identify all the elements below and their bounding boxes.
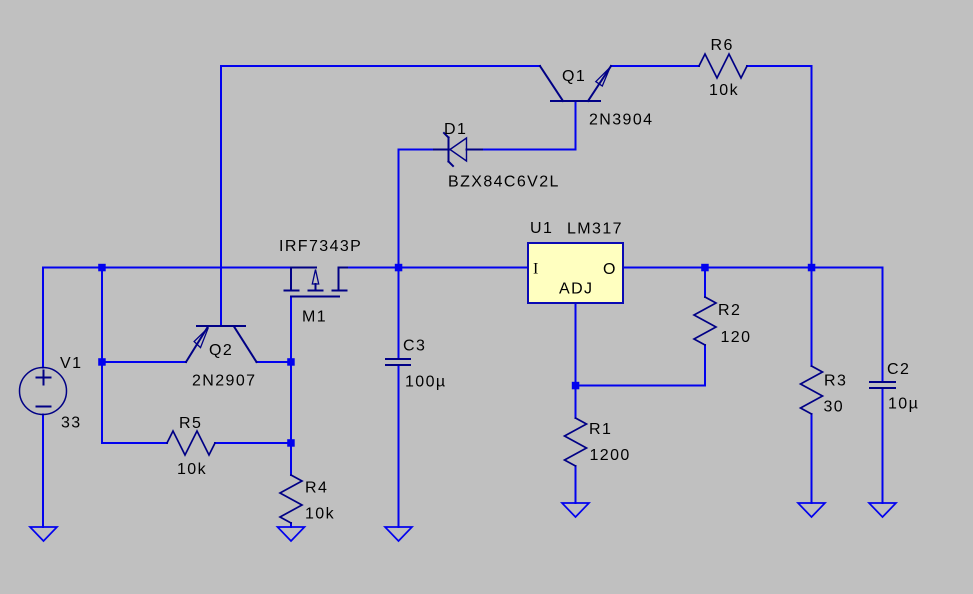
svg-text:2N3904: 2N3904 [589, 112, 653, 129]
ground under R3 [798, 503, 825, 517]
node junction on rail at x=705 [701, 264, 709, 272]
svg-text:O: O [603, 261, 617, 278]
node junction on rail at x=399 [395, 264, 403, 272]
svg-text:10k: 10k [305, 506, 335, 523]
svg-text:U1: U1 [530, 220, 553, 237]
svg-text:R6: R6 [711, 37, 734, 54]
resistor R4 [280, 475, 302, 523]
ground under R4 [278, 527, 305, 541]
wire [399, 150, 450, 360]
svg-text:LM317: LM317 [567, 221, 623, 238]
ground under V1 [30, 527, 57, 541]
wire [575, 466, 577, 503]
ground under C3 [385, 527, 412, 541]
wire [221, 66, 540, 326]
wire [704, 268, 706, 298]
wire [42, 415, 44, 528]
node junction on rail at x=102 [98, 264, 106, 272]
resistor R2 [694, 297, 716, 345]
wire [215, 442, 291, 444]
wire [467, 101, 576, 150]
wire [290, 523, 292, 527]
svg-text:C3: C3 [403, 338, 426, 355]
svg-text:D1: D1 [444, 121, 467, 138]
svg-text:C2: C2 [887, 361, 910, 378]
wire [102, 361, 186, 363]
node junction on rail at x=811 [808, 264, 816, 272]
svg-text:10k: 10k [709, 82, 739, 99]
wire [346, 267, 528, 269]
ground under R1 [562, 503, 589, 517]
wire [102, 268, 167, 444]
node junction Q2 emitter row [98, 358, 106, 366]
wire [576, 345, 706, 386]
voltage source V1 [20, 368, 67, 415]
svg-text:V1: V1 [60, 355, 82, 372]
svg-text:Q1: Q1 [562, 68, 586, 85]
svg-text:IRF7343P: IRF7343P [279, 238, 362, 255]
wire [398, 365, 400, 527]
transistor Q1 [540, 66, 611, 101]
svg-text:1200: 1200 [590, 447, 631, 464]
wire [575, 303, 577, 418]
svg-text:R4: R4 [305, 480, 328, 497]
wire [623, 268, 883, 383]
wire [882, 388, 884, 503]
wire [611, 65, 699, 67]
node junction Q2 collector row [287, 358, 295, 366]
resistor R1 [565, 418, 587, 466]
svg-text:33: 33 [61, 415, 82, 432]
svg-text:10k: 10k [177, 461, 207, 478]
transistor Q2 [186, 326, 257, 362]
wire [257, 361, 292, 363]
ground under C2 [869, 503, 896, 517]
node junction ADJ/R1/R2 [572, 382, 580, 390]
svg-text:R2: R2 [718, 302, 741, 319]
svg-text:R5: R5 [179, 415, 202, 432]
svg-text:R1: R1 [589, 421, 612, 438]
svg-text:R3: R3 [824, 373, 847, 390]
wire [290, 297, 292, 476]
svg-text:120: 120 [721, 329, 752, 346]
wire [747, 66, 812, 366]
transistor M1 (PMOS) [285, 268, 348, 297]
resistor R6 [699, 54, 747, 78]
wire [811, 414, 813, 503]
svg-text:10µ: 10µ [888, 396, 919, 413]
svg-text:100µ: 100µ [405, 374, 447, 391]
svg-text:ADJ: ADJ [559, 281, 593, 298]
capacitor C2 [870, 382, 895, 388]
op-amp U1 (LM317 regulator box) [528, 243, 623, 303]
node junction R5/R4 [287, 439, 295, 447]
diode D1 (zener) [434, 133, 482, 166]
wire [43, 268, 292, 368]
svg-text:2N2907: 2N2907 [192, 373, 256, 390]
svg-text:I: I [533, 261, 540, 278]
svg-text:Q2: Q2 [209, 342, 233, 359]
resistor R5 [167, 431, 215, 455]
resistor R3 [801, 366, 823, 414]
svg-text:BZX84C6V2L: BZX84C6V2L [448, 174, 560, 191]
svg-text:M1: M1 [302, 309, 327, 326]
svg-text:30: 30 [824, 399, 845, 416]
capacitor C3 [386, 359, 410, 365]
